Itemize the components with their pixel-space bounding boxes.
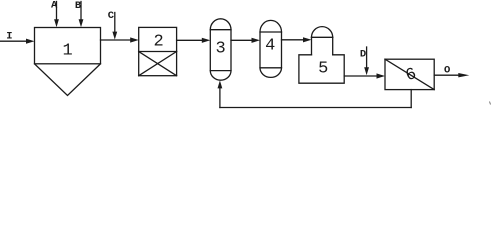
stream label I [6, 31, 12, 43]
svg-text:5: 5 [318, 59, 328, 78]
stream label B [75, 0, 82, 12]
svg-text:C: C [108, 10, 115, 22]
unit 5 neck sides [312, 37, 333, 55]
arrowhead into unit 2 [130, 37, 139, 42]
unit 3 top dome [210, 19, 231, 30]
wire A [56, 2, 58, 21]
wire C [114, 13, 116, 33]
svg-text:D: D [360, 48, 366, 60]
svg-text:1: 1 [62, 42, 72, 61]
arrowhead B into unit 1 top [79, 19, 84, 27]
arrowhead C onto wire [112, 32, 117, 40]
stream label C [108, 10, 115, 22]
unit 1 mixer/settler tank body [35, 28, 101, 64]
arrowhead A into unit 1 top [54, 19, 59, 27]
arrowhead into unit 4 [252, 38, 261, 43]
unit 2 cross diagonal 2 [139, 52, 177, 76]
wire unit3 to unit4 [231, 39, 252, 41]
recycle wire bottom horizontal [220, 107, 411, 109]
recycle wire up to unit 3 [219, 88, 221, 107]
unit 6 number label [403, 65, 419, 86]
unit 1 conical bottom [35, 64, 101, 96]
recycle wire down from unit 6 [410, 90, 412, 108]
unit 6 separator box [385, 59, 434, 89]
svg-text:6: 6 [403, 65, 419, 86]
wire I feed [0, 40, 28, 42]
unit 3 number label [215, 39, 225, 58]
unit 3 column vessel body [210, 30, 231, 71]
wire D [366, 47, 368, 68]
scan speck [490, 102, 491, 105]
unit 4 bottom dome [260, 68, 282, 78]
unit 4 column vessel body [260, 32, 282, 68]
unit 5 neck dome [312, 27, 333, 38]
unit 6 diagonal [385, 59, 434, 89]
unit 5 number label [318, 59, 328, 78]
unit 4 top dome [260, 20, 282, 32]
unit 2 filter box [139, 27, 177, 75]
arrowhead into unit 3 [202, 38, 211, 43]
stream label O [444, 65, 450, 77]
svg-text:4: 4 [265, 36, 275, 55]
unit 2 divider [139, 51, 177, 53]
wire unit4 to unit5 [282, 39, 304, 41]
arrowhead into unit 6 [377, 73, 386, 78]
unit 3 bottom dome [210, 71, 231, 81]
wire unit5 to unit6 [344, 75, 377, 77]
wire unit6 output [434, 74, 459, 76]
arrowhead recycle into unit 3 bottom [218, 80, 223, 88]
unit 1 number label [62, 42, 72, 61]
svg-text:3: 3 [215, 39, 225, 58]
unit 2 number label [153, 32, 163, 51]
arrowhead D onto wire [364, 67, 369, 75]
unit 2 cross diagonal 1 [139, 52, 177, 76]
arrowhead into unit 1 left [26, 39, 35, 44]
stream label A [51, 0, 58, 12]
wire unit2 to unit3 [177, 39, 203, 41]
wire unit1 to unit2 [101, 39, 132, 41]
arrowhead into unit 5 neck [303, 37, 312, 42]
arrowhead output O [458, 73, 469, 77]
wire B [80, 2, 82, 21]
svg-text:2: 2 [153, 32, 163, 51]
unit 5 furnace box [299, 55, 344, 83]
unit 4 number label [265, 36, 275, 55]
unit 5 neck chord [312, 36, 333, 38]
stream label D [360, 48, 366, 60]
